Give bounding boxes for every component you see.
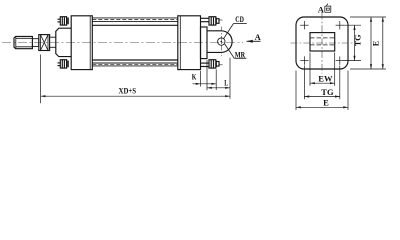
svg-text:A: A xyxy=(255,32,262,42)
rear top tie-rod stud and nut xyxy=(201,17,225,25)
tie rod bottom xyxy=(92,62,178,64)
tie rod hole mark bottom-right xyxy=(336,56,344,64)
svg-text:MR: MR xyxy=(235,49,246,59)
svg-text:EW: EW xyxy=(318,74,333,84)
rear head inner edge xyxy=(179,16,181,70)
svg-text:L: L xyxy=(224,78,228,88)
flats inner edges xyxy=(40,35,42,51)
svg-text:E: E xyxy=(371,41,380,46)
dimension K xyxy=(193,69,217,90)
svg-text:XD+S: XD+S xyxy=(119,85,137,95)
piston rod xyxy=(50,36,56,38)
leader MR xyxy=(225,44,235,58)
leader CD xyxy=(224,24,247,39)
svg-text:TG: TG xyxy=(321,87,334,97)
end view vertical centerline xyxy=(321,13,323,74)
front head inner edge xyxy=(89,16,91,70)
pin vertical centerline xyxy=(220,27,222,57)
tie rod top xyxy=(92,17,178,19)
thread chamfer line xyxy=(15,37,17,49)
cylinder tube xyxy=(92,24,178,26)
rod end thread xyxy=(14,36,32,48)
clevis base plate xyxy=(201,27,208,59)
clevis lug xyxy=(207,31,232,53)
tie rod hole mark bottom-left xyxy=(300,56,308,64)
tie rod hole mark top-left xyxy=(300,21,308,29)
flats cross xyxy=(41,35,49,51)
clevis pin hole CD xyxy=(218,38,225,45)
rod gland xyxy=(56,28,71,56)
front head xyxy=(71,16,92,70)
end view plate xyxy=(296,17,348,69)
front bottom tie-rod nut xyxy=(58,60,69,68)
end view horizontal centerline xyxy=(291,42,354,44)
svg-text:E: E xyxy=(323,98,329,108)
dimension TG bottom xyxy=(304,66,339,100)
pin hole hidden lines xyxy=(310,37,335,39)
svg-text:K: K xyxy=(192,72,197,82)
rear head xyxy=(178,16,201,70)
main axis centerline xyxy=(2,42,243,44)
hanzi xiang of view title xyxy=(325,4,331,13)
dimension TG vertical xyxy=(344,25,361,60)
rod neck xyxy=(32,39,38,47)
section arrow A xyxy=(247,40,261,43)
dimension XD+S xyxy=(41,55,230,104)
svg-text:A: A xyxy=(318,4,325,14)
thread minor lines xyxy=(16,37,33,39)
clevis end-on rectangle xyxy=(310,33,335,51)
dimension E bottom xyxy=(296,71,348,111)
outer vertical dimension line xyxy=(382,17,384,69)
tie rod hole mark top-right xyxy=(336,21,344,29)
svg-text:CD: CD xyxy=(235,14,244,24)
rear bottom tie-rod stud and nut xyxy=(201,60,225,68)
front top tie-rod nut xyxy=(58,17,69,25)
svg-text:TG: TG xyxy=(353,35,362,47)
wrench flats block xyxy=(39,35,50,51)
dimension EW xyxy=(310,53,335,86)
dimension E vertical xyxy=(350,17,386,69)
dimension L xyxy=(207,58,230,99)
